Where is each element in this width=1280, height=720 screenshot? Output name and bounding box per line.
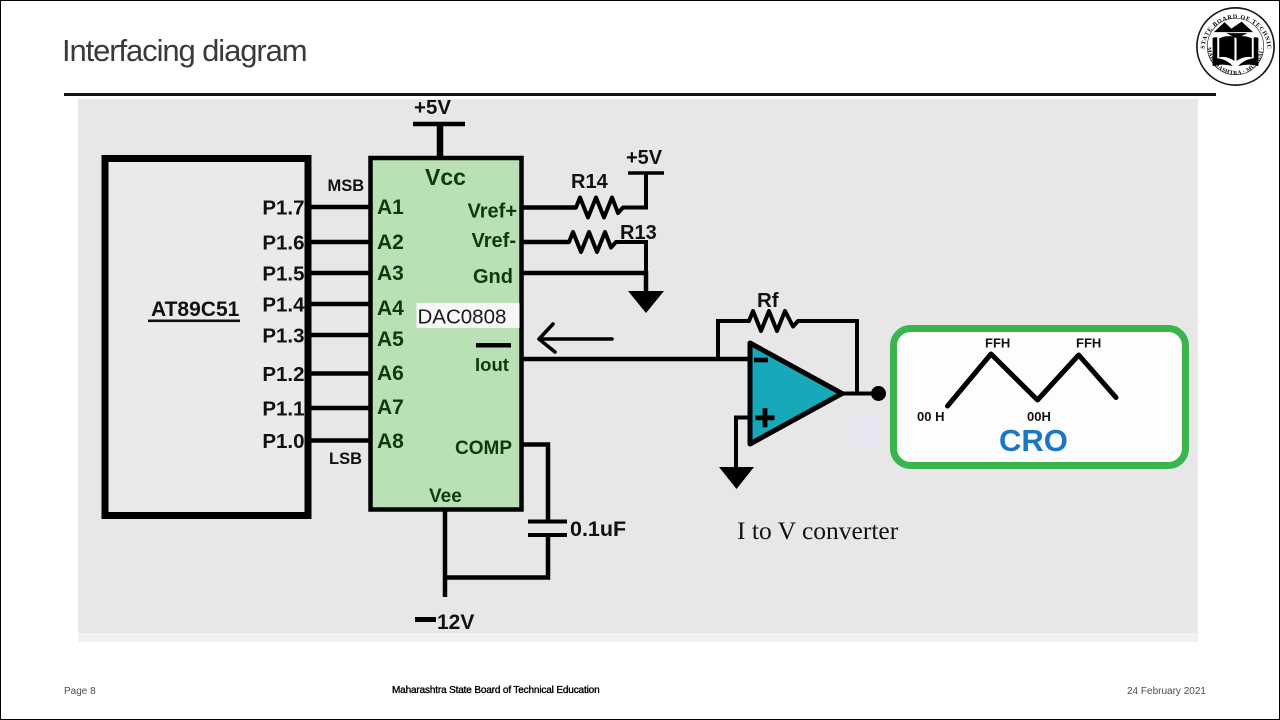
pin label Vref+ — [468, 201, 517, 223]
svg-text:A8: A8 — [377, 430, 404, 453]
pin label A3 — [377, 262, 404, 285]
+5V supply right: label — [626, 147, 663, 169]
svg-text:FFH: FFH — [985, 336, 1010, 351]
svg-text:Vref-: Vref- — [472, 230, 516, 252]
wire Iout to op-amp inverting input — [523, 357, 750, 362]
op-amp minus input marking — [754, 358, 768, 363]
svg-text:A5: A5 — [377, 328, 404, 351]
pin label COMP — [455, 438, 512, 459]
op-amp plus input marking — [756, 408, 775, 427]
svg-text:FFH: FFH — [1076, 336, 1101, 351]
svg-text:P1.5: P1.5 — [262, 262, 304, 285]
label R13 — [620, 222, 657, 244]
label R14 — [571, 171, 609, 193]
svg-text:Vcc: Vcc — [425, 164, 466, 190]
output node dot — [871, 386, 886, 401]
pin label A4 — [377, 297, 404, 320]
+5V supply top: label — [414, 96, 451, 119]
svg-text:P1.6: P1.6 — [262, 231, 304, 254]
logo seal — [1195, 6, 1276, 87]
svg-text:00 H: 00 H — [917, 409, 944, 424]
wire P1.4 to A4 — [308, 302, 372, 307]
pin label P1.0 — [262, 430, 304, 453]
pin label A8 — [377, 430, 404, 453]
wire Vee to -12V — [443, 510, 448, 597]
pin label Vref- — [472, 230, 516, 252]
wire P1.0 to A8 — [308, 438, 372, 443]
svg-text:12V: 12V — [437, 611, 474, 634]
svg-text:A3: A3 — [377, 262, 404, 285]
pin label P1.1 — [262, 397, 304, 420]
svg-text:A7: A7 — [377, 396, 404, 419]
svg-text:LSB: LSB — [329, 450, 362, 468]
svg-text:0.1uF: 0.1uF — [570, 517, 626, 541]
wire P1.5 to A3 — [308, 271, 372, 276]
title underline — [64, 93, 1216, 96]
svg-text:Gnd: Gnd — [473, 266, 513, 288]
label CRO — [999, 423, 1068, 458]
CRO box — [894, 329, 1186, 466]
pin label P1.2 — [262, 363, 304, 386]
footer center — [392, 685, 600, 696]
DAC0808 body — [371, 158, 522, 510]
diagram panel — [78, 99, 1198, 633]
wire P1.6 to A2 — [308, 240, 372, 245]
svg-text:P1.1: P1.1 — [262, 397, 304, 420]
svg-text:R13: R13 — [620, 222, 657, 244]
microcontroller AT89C51 body — [105, 159, 308, 516]
pin label Vcc — [425, 164, 466, 190]
label 0.1uF — [570, 517, 626, 541]
svg-text:00H: 00H — [1027, 409, 1051, 424]
wire P1.1 to A7 — [308, 406, 372, 411]
svg-text:Rf: Rf — [757, 289, 779, 312]
signal direction arrow — [539, 324, 612, 352]
pin label A7 — [377, 396, 404, 419]
wire +5V to Vcc — [437, 124, 444, 158]
pin label P1.5 — [262, 262, 304, 285]
svg-text:Vref+: Vref+ — [468, 201, 517, 223]
pin label A6 — [377, 362, 404, 385]
label AT89C51 — [148, 298, 240, 322]
svg-text:Vee: Vee — [429, 486, 462, 507]
resistor Rf — [749, 311, 798, 331]
resistor R14 — [576, 198, 623, 218]
wire Vref- to R13 — [523, 240, 569, 245]
label 00 H — [917, 409, 944, 424]
capacitor C1 top plate — [528, 520, 567, 524]
svg-text:A1: A1 — [377, 196, 404, 219]
pin label P1.6 — [262, 231, 304, 254]
label MSB — [328, 177, 365, 195]
pin label P1.3 — [262, 324, 304, 347]
wire P1.2 to A6 — [308, 371, 372, 376]
output wire — [842, 392, 884, 396]
svg-text:DAC0808: DAC0808 — [418, 306, 507, 329]
label FFH (second peak) — [1076, 336, 1101, 351]
pin label Iout with overbar — [475, 343, 511, 375]
footer page number — [64, 686, 96, 697]
svg-text:A2: A2 — [377, 231, 404, 254]
svg-text:P1.4: P1.4 — [262, 293, 305, 316]
resistor R13 — [569, 232, 616, 252]
svg-text:P1.3: P1.3 — [262, 324, 304, 347]
wire P1.3 to A5 — [308, 333, 372, 338]
label I to V converter — [737, 516, 899, 545]
label LSB — [329, 450, 362, 468]
svg-text:A4: A4 — [377, 297, 404, 320]
svg-text:+5V: +5V — [626, 147, 663, 169]
pin label A2 — [377, 231, 404, 254]
+5V supply top: bar symbol — [413, 122, 465, 127]
wire P1.7 to A1 — [308, 205, 372, 210]
pin label P1.4 — [262, 293, 305, 316]
svg-text:P1.0: P1.0 — [262, 430, 304, 453]
label Rf — [757, 289, 779, 312]
label DAC0808 — [417, 303, 520, 329]
ground symbol (op-amp) — [719, 467, 754, 489]
wire R14 to +5V — [623, 174, 646, 208]
+5V supply right: bar symbol — [628, 171, 664, 175]
ground symbol (DAC) — [628, 291, 664, 313]
wire plus input to ground — [736, 418, 750, 468]
svg-text:+5V: +5V — [414, 96, 451, 119]
svg-text:AT89C51: AT89C51 — [151, 298, 240, 321]
footer date — [1127, 686, 1206, 697]
svg-text:I to V converter: I to V converter — [737, 516, 899, 545]
wire Vref+ to R14 — [523, 205, 576, 210]
capacitor C1 bottom plate — [528, 533, 567, 537]
pin label A5 — [377, 328, 404, 351]
label -12V — [415, 611, 474, 634]
svg-text:R14: R14 — [571, 171, 609, 193]
svg-text:P1.7: P1.7 — [262, 196, 304, 219]
wire R13 down to ground node — [616, 242, 646, 273]
pin label Vee — [429, 486, 462, 507]
pin label A1 — [377, 196, 404, 219]
wire capacitor to Vee rail — [443, 535, 548, 578]
svg-text:Iout: Iout — [475, 354, 509, 375]
op-amp U3 — [750, 343, 842, 444]
wire Rf to output — [798, 321, 857, 394]
svg-text:P1.2: P1.2 — [262, 363, 304, 386]
svg-text:CRO: CRO — [999, 423, 1068, 458]
svg-text:MSB: MSB — [328, 177, 365, 195]
waveform trace — [948, 354, 1117, 406]
wire Gnd to ground node — [523, 273, 646, 292]
title — [62, 33, 306, 69]
pin label P1.7 — [262, 196, 304, 219]
feedback wire loop — [718, 321, 749, 359]
faint smudge near op-amp output — [850, 415, 880, 450]
label FFH (first peak) — [985, 336, 1010, 351]
pin label Gnd — [473, 266, 513, 288]
svg-text:A6: A6 — [377, 362, 404, 385]
wire COMP to capacitor — [523, 445, 548, 520]
svg-text:COMP: COMP — [455, 438, 512, 459]
label 00H — [1027, 409, 1051, 424]
